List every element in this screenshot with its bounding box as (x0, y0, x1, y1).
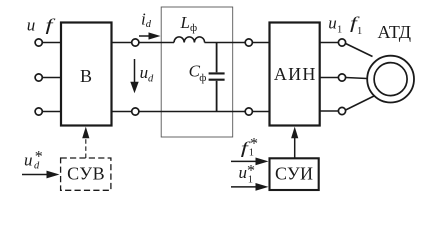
voltage arrow u_d (130, 59, 138, 93)
svg-text:u: u (140, 63, 149, 82)
terminal circle dc top left (132, 39, 139, 46)
wire output phase 2 (320, 77, 339, 79)
input arrow u_d* to SUV (22, 171, 60, 179)
dashed arrow SUV to B (82, 127, 89, 158)
input arrow u1* to SUI (231, 183, 269, 191)
wire input phase 3 (43, 111, 62, 113)
svg-text:ф: ф (190, 22, 197, 34)
terminal circle output 2 (338, 74, 345, 81)
label u1* (239, 162, 256, 185)
wire output phase 1 (320, 39, 374, 115)
wire input phase 1 (43, 42, 62, 44)
inductor Lf (174, 37, 205, 43)
svg-text:ф: ф (199, 72, 206, 84)
svg-text:1: 1 (357, 26, 362, 37)
svg-text:u: u (239, 163, 248, 182)
svg-text:СУВ: СУВ (67, 164, 105, 184)
label f1* (241, 136, 258, 159)
wire output phase 3 (320, 110, 339, 112)
svg-text:АИН: АИН (274, 64, 316, 84)
label u_d (140, 63, 154, 85)
svg-text:L: L (180, 13, 190, 32)
svg-text:СУИ: СУИ (275, 164, 313, 184)
filter box (thin) (161, 7, 233, 137)
wire dc top (112, 39, 270, 115)
wire input phase 2 (43, 77, 62, 79)
terminal circle dc bottom left (132, 108, 139, 115)
label i_d (141, 9, 152, 30)
svg-text:*: * (250, 136, 258, 153)
svg-text:d: d (148, 74, 154, 85)
control block SUV (dashed) (61, 158, 111, 190)
svg-text:*: * (35, 148, 43, 165)
motor ATD inner circle (374, 63, 407, 96)
input arrow f1* to SUI (231, 158, 269, 166)
motor ATD outer circle (367, 56, 414, 103)
terminal circle dc top right (245, 39, 252, 46)
terminal circle input 3 (35, 108, 42, 115)
wire to motor middle (346, 78, 367, 79)
label u f (input) (27, 15, 56, 34)
current arrow i_d (139, 32, 161, 39)
svg-text:d: d (146, 19, 152, 30)
wire dc bottom (112, 111, 270, 113)
label u1 f1 (output) (328, 13, 362, 37)
label L_f (180, 13, 198, 34)
capacitor Cf (209, 43, 225, 112)
terminal circle input 2 (35, 74, 42, 81)
svg-text:*: * (247, 162, 255, 179)
terminal circle output 3 (338, 107, 345, 114)
svg-text:u: u (27, 16, 36, 35)
svg-text:u: u (24, 150, 33, 169)
control block SUI (solid) (270, 158, 319, 190)
svg-text:1: 1 (337, 24, 342, 35)
svg-text:u: u (328, 14, 337, 33)
svg-text:f: f (46, 15, 56, 34)
wire to motor bottom (346, 96, 374, 110)
inverter block AIN (270, 23, 320, 126)
rectifier block B (61, 23, 112, 126)
terminal circle output 1 (338, 39, 345, 46)
label u_d* (24, 148, 43, 171)
svg-text:АТД: АТД (378, 22, 412, 42)
terminal circle input 1 (35, 39, 42, 46)
arrow SUI to AIN (291, 127, 298, 159)
label C_f (189, 62, 207, 85)
wire to motor top (346, 44, 373, 57)
terminal circle dc bottom right (245, 108, 252, 115)
svg-text:В: В (80, 66, 92, 86)
